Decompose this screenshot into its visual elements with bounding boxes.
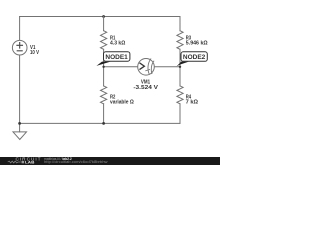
wire R4 bottom lead <box>179 104 181 124</box>
junction dot top (R1 tap) <box>102 15 105 18</box>
circuitlab logo <box>8 157 41 165</box>
junction dot node2 <box>179 66 181 68</box>
svg-text:5.946 kΩ: 5.946 kΩ <box>186 41 208 47</box>
junction dot node1 <box>102 66 104 68</box>
ground <box>13 123 27 139</box>
wire top rail <box>20 16 180 18</box>
node NODE1 flag <box>96 52 129 66</box>
wire R1 top lead <box>103 17 105 31</box>
junction dot bottom (R2 tap) <box>102 122 105 125</box>
resistor R4 <box>177 86 183 104</box>
wire voltmeter left <box>104 66 138 68</box>
svg-text:LAB: LAB <box>25 160 35 165</box>
wire R3 bottom lead <box>179 49 181 67</box>
junction dot bottom-left <box>18 122 21 125</box>
svg-text:http://circuitlab.com/c6od7k8b: http://circuitlab.com/c6od7k8brbhw <box>44 160 108 164</box>
watermark bar <box>0 157 220 165</box>
svg-text:variable Ω: variable Ω <box>110 100 134 106</box>
label VM1 value <box>133 80 158 91</box>
node NODE2 flag <box>177 52 208 66</box>
label V1 value <box>30 45 40 56</box>
wire R2 bottom lead <box>103 104 105 124</box>
wire node2 to R4 <box>179 67 181 86</box>
label R3 value <box>186 36 208 47</box>
wire R3 top lead <box>179 17 181 31</box>
wire voltmeter right <box>154 66 180 68</box>
svg-text:10 V: 10 V <box>30 50 40 56</box>
svg-text:-3.524 V: -3.524 V <box>133 85 158 91</box>
wire node1 to R2 <box>103 67 105 86</box>
label R2 value <box>110 95 134 106</box>
svg-text:7 kΩ: 7 kΩ <box>186 100 199 106</box>
voltage source V1 <box>12 40 27 55</box>
wire bottom rail <box>20 122 180 124</box>
wire left top segment <box>19 17 21 41</box>
svg-text:NODE2: NODE2 <box>183 54 206 61</box>
resistor R1 <box>101 31 107 50</box>
resistor R3 <box>177 31 183 50</box>
label R4 value <box>186 95 199 106</box>
wire R1 bottom lead <box>103 49 105 67</box>
voltmeter VM1 <box>138 59 155 76</box>
svg-text:4.3 kΩ: 4.3 kΩ <box>110 41 126 47</box>
wire left bottom segment <box>19 55 21 123</box>
label R1 value <box>110 36 126 47</box>
resistor R2 <box>101 86 107 104</box>
svg-text:NODE1: NODE1 <box>105 54 128 61</box>
